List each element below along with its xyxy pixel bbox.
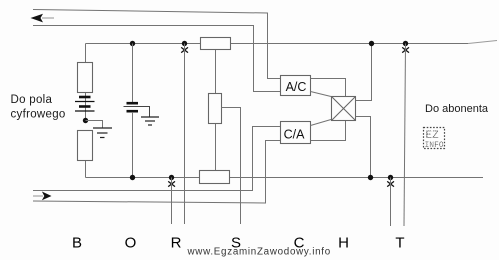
wire — [215, 124, 217, 170]
wire: left column drop — [85, 44, 87, 63]
svg-text:A/C: A/C — [286, 80, 307, 94]
svg-text:cyfrowego: cyfrowego — [11, 109, 66, 121]
watermark stamp EZ INFO — [424, 128, 445, 151]
wire — [215, 50, 217, 93]
arrow from digital field (right-pointing) — [33, 192, 52, 201]
test cross R bottom — [168, 181, 175, 186]
wire to ground — [86, 121, 103, 128]
wire hybrid to tip — [356, 44, 372, 101]
svg-text:Do abonenta: Do abonenta — [425, 103, 489, 115]
wire S tap — [222, 108, 241, 225]
node R top tap — [182, 41, 187, 46]
svg-text:Do pola: Do pola — [11, 94, 53, 106]
wire — [85, 93, 87, 120]
wire: bottom subscriber wire (ring) — [86, 177, 200, 179]
digital side bottom line a — [33, 127, 280, 191]
resistor R4 (sense, middle) — [209, 94, 222, 124]
svg-text:INFO: INFO — [425, 141, 444, 150]
wire T stub (from tip) — [404, 44, 406, 227]
test cross T bottom — [387, 181, 394, 186]
node tip/hybrid — [369, 41, 374, 46]
wire A/C to hybrid (lower) — [311, 92, 332, 97]
svg-text:C/A: C/A — [284, 128, 306, 142]
battery G1 — [75, 97, 95, 111]
wire T stub (from ring) — [390, 178, 392, 227]
ground (capacitor) — [141, 117, 159, 125]
digital side bottom line b — [33, 141, 280, 204]
wire C/A to hybrid (lower) — [311, 121, 346, 141]
wire tip fading end — [468, 41, 497, 44]
arrow to digital field (left) — [31, 14, 55, 23]
resistor R3 (sense, tip) — [201, 38, 231, 50]
wire — [85, 161, 87, 178]
resistor R2 (battery feed bottom) — [78, 131, 93, 161]
svg-text:www.EgzaminZawodowy.info: www.EgzaminZawodowy.info — [187, 247, 331, 258]
wire A/C to hybrid (upper) — [311, 79, 346, 97]
hybrid transformer H1 — [332, 97, 356, 121]
test cross T top — [402, 47, 409, 52]
node O column top — [130, 41, 135, 46]
svg-text:T: T — [395, 235, 404, 252]
wire — [132, 44, 134, 103]
A/D converter U1 — [281, 76, 311, 96]
wire hybrid to ring — [356, 117, 371, 178]
test cross R top — [181, 47, 188, 52]
capacitor C1 (overvoltage) — [124, 103, 150, 116]
D/A converter U2 — [281, 122, 311, 144]
wire: top subscriber wire (tip) — [86, 43, 201, 45]
svg-text:H: H — [338, 235, 349, 252]
node T top tap — [403, 41, 408, 46]
ground (battery) — [93, 128, 112, 138]
svg-text:R: R — [171, 235, 182, 252]
svg-text:B: B — [72, 235, 82, 252]
node ring/hybrid — [368, 175, 373, 180]
wire — [132, 112, 134, 178]
node battery/ground junction — [83, 118, 88, 123]
digital side top line b — [33, 26, 281, 92]
wire R stub (from tip) — [184, 44, 186, 225]
resistor R1 (battery feed top) — [78, 63, 93, 93]
digital side top line a — [33, 10, 281, 79]
node T bottom tap — [388, 175, 393, 180]
wire C/A to hybrid (upper) — [311, 120, 332, 126]
node R bottom tap — [169, 175, 174, 180]
node O column bottom — [130, 175, 135, 180]
wire R stub (from ring) — [171, 178, 173, 225]
resistor R5 (sense, ring) — [200, 171, 230, 184]
svg-text:O: O — [125, 235, 137, 252]
